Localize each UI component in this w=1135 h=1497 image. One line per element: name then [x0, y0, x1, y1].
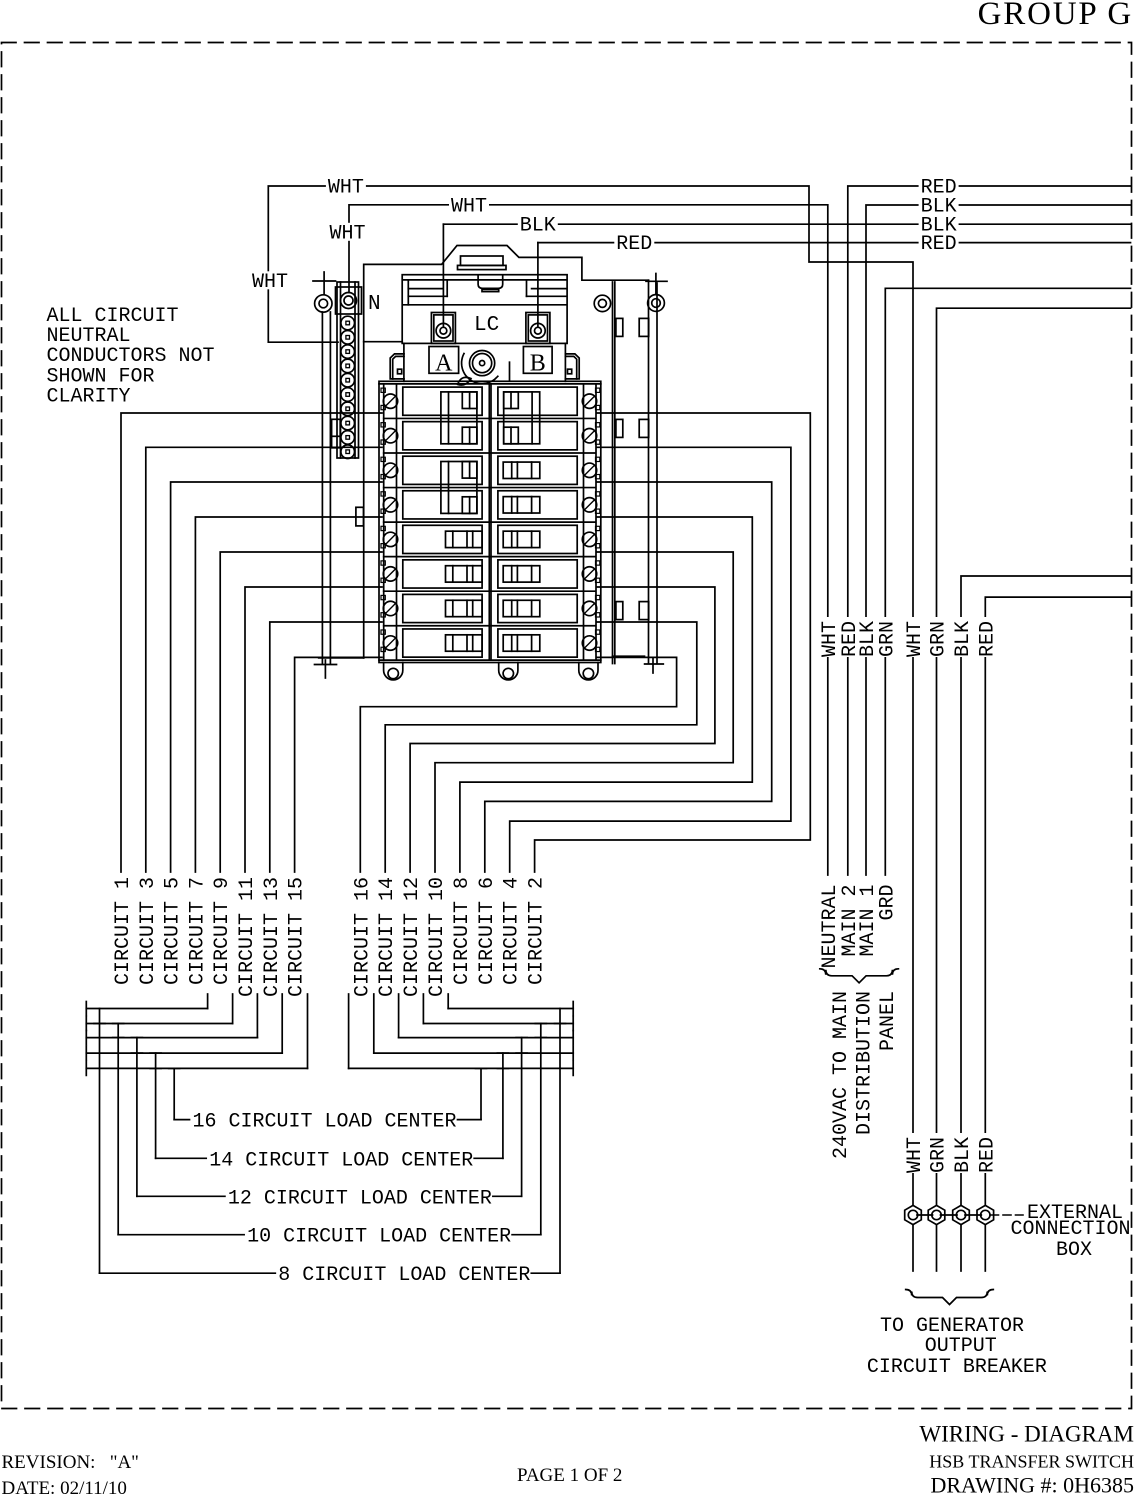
svg-text:WHT: WHT [904, 1137, 927, 1173]
svg-text:8 CIRCUIT LOAD CENTER: 8 CIRCUIT LOAD CENTER [278, 1264, 530, 1287]
svg-text:PAGE 1 OF 2: PAGE 1 OF 2 [517, 1465, 622, 1486]
svg-text:OUTPUT: OUTPUT [925, 1335, 997, 1358]
svg-text:10 CIRCUIT LOAD CENTER: 10 CIRCUIT LOAD CENTER [247, 1226, 511, 1249]
svg-text:REVISION: "A": REVISION: "A" [2, 1452, 139, 1473]
svg-text:CIRCUIT 11: CIRCUIT 11 [236, 877, 259, 997]
svg-text:HSB TRANSFER SWITCH: HSB TRANSFER SWITCH [929, 1452, 1134, 1472]
svg-text:CONNECTION: CONNECTION [1011, 1218, 1131, 1241]
svg-text:LC: LC [474, 314, 499, 337]
svg-text:16 CIRCUIT LOAD CENTER: 16 CIRCUIT LOAD CENTER [193, 1111, 457, 1134]
svg-text:DISTRIBUTION: DISTRIBUTION [854, 991, 877, 1135]
svg-text:WHT: WHT [328, 177, 364, 200]
svg-text:14 CIRCUIT LOAD CENTER: 14 CIRCUIT LOAD CENTER [209, 1149, 473, 1172]
svg-text:BLK: BLK [520, 215, 556, 238]
svg-text:CIRCUIT 8: CIRCUIT 8 [451, 877, 474, 985]
svg-text:RED: RED [616, 233, 652, 256]
svg-text:12 CIRCUIT LOAD CENTER: 12 CIRCUIT LOAD CENTER [228, 1187, 492, 1210]
svg-text:WIRING - DIAGRAM: WIRING - DIAGRAM [919, 1422, 1134, 1447]
svg-text:B: B [530, 351, 546, 377]
svg-text:CIRCUIT 15: CIRCUIT 15 [286, 877, 309, 997]
svg-text:RED: RED [976, 621, 999, 657]
svg-text:CIRCUIT 5: CIRCUIT 5 [162, 877, 185, 985]
svg-text:CIRCUIT 4: CIRCUIT 4 [501, 877, 524, 985]
svg-text:GRN: GRN [928, 1137, 951, 1173]
svg-text:CIRCUIT 7: CIRCUIT 7 [186, 877, 209, 985]
svg-text:CIRCUIT 12: CIRCUIT 12 [401, 877, 424, 997]
svg-text:WHT: WHT [904, 621, 927, 657]
svg-text:DRAWING #: 0H6385: DRAWING #: 0H6385 [930, 1473, 1134, 1497]
svg-text:BLK: BLK [952, 1137, 975, 1173]
svg-text:N: N [368, 293, 381, 316]
svg-text:WHT: WHT [451, 195, 487, 218]
svg-text:CIRCUIT 1: CIRCUIT 1 [112, 877, 135, 985]
svg-text:CIRCUIT 3: CIRCUIT 3 [137, 877, 160, 985]
svg-text:WHT: WHT [329, 222, 365, 245]
svg-text:CIRCUIT 16: CIRCUIT 16 [351, 877, 374, 997]
svg-text:RED: RED [976, 1137, 999, 1173]
svg-text:CIRCUIT 13: CIRCUIT 13 [261, 877, 284, 997]
svg-text:RED: RED [921, 233, 957, 256]
svg-text:DATE: 02/11/10: DATE: 02/11/10 [2, 1478, 127, 1497]
svg-text:WHT: WHT [252, 271, 288, 294]
svg-text:240VAC TO MAIN: 240VAC TO MAIN [830, 991, 853, 1159]
svg-text:CIRCUIT 6: CIRCUIT 6 [476, 877, 499, 985]
svg-text:CIRCUIT 9: CIRCUIT 9 [211, 877, 234, 985]
svg-text:CIRCUIT 14: CIRCUIT 14 [376, 877, 399, 997]
svg-text:CIRCUIT BREAKER: CIRCUIT BREAKER [867, 1356, 1047, 1379]
svg-text:CLARITY: CLARITY [47, 385, 131, 408]
svg-text:PANEL: PANEL [877, 991, 900, 1051]
svg-text:CIRCUIT 2: CIRCUIT 2 [526, 877, 549, 985]
svg-text:A: A [435, 351, 453, 377]
svg-text:GROUP G: GROUP G [978, 0, 1133, 32]
svg-text:GRD: GRD [876, 885, 899, 921]
svg-text:BLK: BLK [952, 621, 975, 657]
svg-text:CIRCUIT 10: CIRCUIT 10 [426, 877, 449, 997]
svg-text:GRN: GRN [928, 621, 951, 657]
svg-text:GRN: GRN [876, 621, 899, 657]
svg-text:BOX: BOX [1056, 1239, 1092, 1262]
